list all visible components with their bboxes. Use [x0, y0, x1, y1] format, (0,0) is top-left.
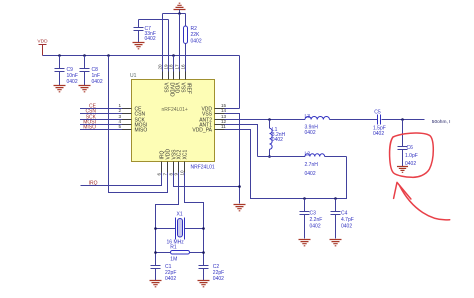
svg-text:0402: 0402: [305, 130, 316, 136]
node junction C3: [303, 197, 306, 200]
wire pin8 stub: [173, 162, 175, 173]
wire pin14 stub: [215, 113, 225, 115]
svg-text:1.0pF: 1.0pF: [405, 153, 418, 159]
wire pin19 DVDD vertical: [168, 20, 170, 72]
wire XC1 to crystal right node: [185, 173, 204, 266]
pin names left: [135, 106, 148, 133]
resistor R1: [170, 245, 189, 263]
wire crystal row right: [185, 228, 204, 230]
wire rail drop to pin 15: [239, 56, 241, 109]
wire pin10 stub: [184, 162, 186, 173]
svg-text:0402: 0402: [373, 131, 384, 137]
ground under C2: [198, 281, 210, 287]
power symbol VDD: [37, 39, 48, 56]
svg-text:2.7nH: 2.7nH: [305, 162, 319, 168]
svg-text:VDD_PA: VDD_PA: [192, 127, 212, 133]
svg-text:R1: R1: [170, 245, 177, 251]
wire pin15 stub: [215, 108, 225, 110]
wire IRQ to pin6: [81, 173, 162, 186]
capacitor C8: [80, 56, 103, 86]
svg-text:C3: C3: [310, 210, 317, 216]
resistor R2: [184, 14, 202, 72]
wire pin20 stub: [162, 72, 164, 80]
ground under C3: [299, 240, 311, 246]
wire pin7 stub: [167, 162, 169, 173]
wire pin13 stub: [215, 119, 225, 121]
inductor L3: [305, 114, 330, 136]
svg-text:L2: L2: [305, 151, 311, 157]
svg-text:22K: 22K: [191, 32, 201, 38]
wire pin11 stub: [215, 129, 225, 131]
node junction C6: [401, 118, 404, 121]
svg-text:NRF24L01: NRF24L01: [191, 165, 215, 171]
wire pin12 stub: [215, 124, 225, 126]
wire pin2 stub: [122, 113, 132, 115]
svg-text:C9: C9: [67, 67, 74, 73]
wire pin8 VSS to ground junction: [174, 173, 240, 187]
svg-text:10: 10: [179, 170, 184, 176]
svg-text:X1: X1: [177, 211, 183, 217]
node junction rail C8: [83, 54, 86, 57]
svg-text:VDD: VDD: [37, 39, 48, 45]
node junction L1 bottom: [268, 155, 271, 158]
wire C7 line: [139, 19, 169, 21]
wire ANT2 line: [225, 119, 425, 121]
svg-text:nRF24L01+: nRF24L01+: [162, 107, 188, 113]
svg-text:9: 9: [173, 173, 178, 176]
capacitor C7: [134, 20, 156, 43]
pin names bottom: [159, 149, 188, 160]
node junction R1 left: [154, 251, 157, 254]
annotation arrow head: [394, 182, 411, 199]
wire pin4 stub: [122, 124, 132, 126]
node junction rail C9: [58, 54, 61, 57]
svg-text:50ohm, I: 50ohm, I: [432, 119, 451, 125]
wire pin14 VSS down: [225, 114, 240, 204]
ground under C6: [397, 167, 408, 173]
wire pin17 VSS vertical: [179, 14, 181, 72]
svg-text:2.2nF: 2.2nF: [310, 217, 323, 223]
svg-text:10nF: 10nF: [67, 73, 78, 79]
svg-text:VSS: VSS: [162, 83, 168, 94]
svg-text:U1: U1: [130, 73, 137, 79]
svg-text:C6: C6: [407, 145, 414, 151]
wire ANT1: [225, 125, 258, 157]
capacitor C3: [300, 199, 323, 239]
annotation arrow shaft: [400, 186, 450, 220]
wire R1 row: [156, 252, 204, 254]
svg-text:0402: 0402: [67, 79, 78, 85]
wire pin15 VDD: [225, 108, 240, 110]
wire pin19 stub: [168, 72, 170, 80]
wire VDD_PA loop: [225, 130, 347, 199]
capacitor C6: [398, 120, 418, 168]
svg-text:17: 17: [174, 64, 179, 70]
node junction C4: [334, 197, 337, 200]
capacitor C2: [199, 264, 225, 282]
wire pin17 stub: [179, 72, 181, 80]
wire pin18 stub: [173, 72, 175, 80]
wire CE: [80, 108, 122, 110]
wire pin3 stub: [122, 119, 132, 121]
wire crystal row left: [156, 228, 176, 230]
wire VDD feed down to pin7: [109, 56, 168, 193]
svg-text:0402: 0402: [305, 171, 316, 177]
ground under C7: [133, 43, 145, 49]
svg-text:0402: 0402: [92, 79, 103, 85]
svg-text:0402: 0402: [191, 38, 202, 44]
wire pin6 stub: [161, 162, 163, 173]
svg-text:VDD: VDD: [173, 83, 179, 94]
ground top flipped: [174, 3, 186, 9]
capacitor C1: [151, 264, 177, 282]
svg-text:C5: C5: [374, 110, 381, 116]
wire SCK: [80, 119, 122, 121]
capacitor C9: [55, 56, 78, 86]
wire MISO: [80, 129, 122, 131]
ground under C1: [150, 281, 162, 287]
node junction crystal left: [154, 227, 157, 230]
wire pin5 stub: [122, 129, 132, 131]
svg-text:4.7pF: 4.7pF: [341, 217, 354, 223]
wire CSN: [80, 113, 122, 115]
svg-text:L3: L3: [305, 114, 311, 120]
ground under C8: [79, 86, 91, 92]
svg-text:18: 18: [168, 64, 173, 70]
node junction crystal right: [202, 227, 205, 230]
svg-text:0402: 0402: [341, 223, 352, 229]
svg-text:R2: R2: [191, 26, 198, 32]
ground right of IC: [234, 205, 246, 211]
wire VDD rail: [43, 55, 240, 57]
svg-text:0402: 0402: [165, 276, 176, 282]
svg-text:MISO: MISO: [135, 127, 148, 133]
pin numbers: [118, 64, 226, 176]
svg-text:IREF: IREF: [185, 83, 191, 94]
capacitor C4: [331, 199, 354, 239]
svg-text:1M: 1M: [170, 256, 177, 262]
svg-text:C8: C8: [92, 67, 99, 73]
pin names right: [192, 106, 212, 133]
op-amp U1 nRF24L01+ IC body: [130, 73, 215, 171]
wire pin18 VDD vertical: [173, 56, 175, 72]
svg-text:20: 20: [157, 64, 162, 70]
node junction rail feed: [107, 54, 110, 57]
node junction ANT2 L1: [268, 118, 271, 121]
svg-text:XC1: XC1: [182, 150, 188, 160]
svg-text:0402: 0402: [272, 137, 283, 143]
wire pin9 stub: [178, 162, 180, 173]
svg-text:6: 6: [156, 173, 161, 176]
svg-text:7: 7: [162, 173, 167, 176]
annotation circle around C6: [390, 133, 434, 177]
node junction rail pin18: [172, 54, 175, 57]
wire pin20 VSS vertical: [162, 14, 164, 72]
node junction R1 right: [202, 251, 205, 254]
capacitor C5: [373, 110, 386, 138]
wire MOSI: [80, 124, 122, 126]
svg-text:0402: 0402: [213, 276, 224, 282]
ground under C4: [330, 240, 342, 246]
svg-text:0402: 0402: [145, 36, 156, 42]
svg-text:C4: C4: [341, 210, 348, 216]
node junction VSS ground: [238, 185, 241, 188]
inductor L2: [305, 151, 325, 177]
svg-text:VSS: VSS: [179, 83, 185, 94]
crystal X1 16MHz: [167, 211, 185, 245]
wire ground stem: [179, 10, 181, 14]
svg-text:1nF: 1nF: [92, 73, 101, 79]
svg-text:16: 16: [180, 64, 185, 70]
wire pin1 stub: [122, 108, 132, 110]
wire XC2 to crystal left node: [156, 173, 179, 266]
node junction ground line: [178, 12, 181, 15]
wire top ground line: [163, 13, 186, 15]
wire L2 row: [258, 156, 347, 158]
pin names top: [162, 83, 191, 98]
wire pin16 stub: [185, 72, 187, 80]
ground under C9: [54, 86, 66, 92]
inductor L1: [270, 120, 286, 157]
svg-text:0402: 0402: [310, 223, 321, 229]
